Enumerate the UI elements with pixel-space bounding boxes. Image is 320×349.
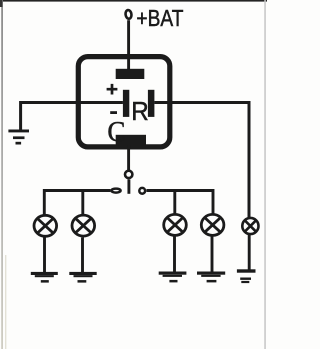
lamp L5 (small, right side) — [242, 218, 258, 234]
switch contact right (circle) — [139, 188, 145, 194]
wire lamp L4 to ground — [211, 236, 214, 272]
relay internal top terminal plate — [116, 69, 145, 79]
switch contact left (oval) — [111, 189, 120, 193]
wire +BAT terminal down to relay — [127, 20, 130, 70]
coil plate right — [148, 90, 155, 117]
wire junction drop to lamp L3 — [173, 191, 176, 216]
svg-text:+BAT: +BAT — [136, 5, 183, 31]
svg-text:R: R — [131, 96, 149, 126]
ground G4 (lamp L4) — [197, 272, 225, 283]
wire junction drop to lamp L2 — [81, 191, 84, 217]
relay internal bottom terminal plate — [116, 135, 146, 145]
scan border top edge — [0, 0, 267, 2]
svg-text:C: C — [107, 117, 125, 148]
lamp L4 — [201, 214, 224, 235]
switch armature stub — [127, 179, 130, 193]
label - (relay polarity) — [110, 111, 117, 114]
ground G3 (lamp L3) — [159, 272, 187, 283]
ground G1 (lamp L1) — [31, 272, 58, 283]
scan border right edge — [264, 0, 266, 349]
relay box U1 — [78, 57, 170, 147]
wire right horizontal from relay coil, down right side — [154, 103, 249, 219]
wire left horizontal from ground to relay coil — [21, 103, 123, 131]
wire right branch to lamps L3 L4 — [146, 191, 213, 216]
lamp L1 — [34, 215, 57, 236]
ground G0 (left, relay coil return) — [8, 130, 29, 145]
label + (relay polarity) — [107, 84, 118, 95]
wire relay bottom to switch pivot — [127, 144, 130, 170]
lamp L3 — [164, 214, 187, 235]
ground G5 (lamp L5) — [237, 269, 256, 283]
node +BAT terminal — [125, 10, 132, 20]
wire lamp L1 to ground — [43, 238, 46, 273]
lamp L2 — [72, 215, 95, 236]
wire lamp L3 to ground — [173, 236, 176, 272]
wire left branch to lamps L1 L2 — [44, 191, 110, 217]
ground G2 (lamp L2) — [69, 272, 96, 283]
wire lamp L2 to ground — [81, 238, 84, 273]
wire lamp L5 to ground — [248, 235, 251, 270]
switch pivot terminal circle — [125, 171, 132, 178]
coil plate left — [123, 90, 129, 117]
